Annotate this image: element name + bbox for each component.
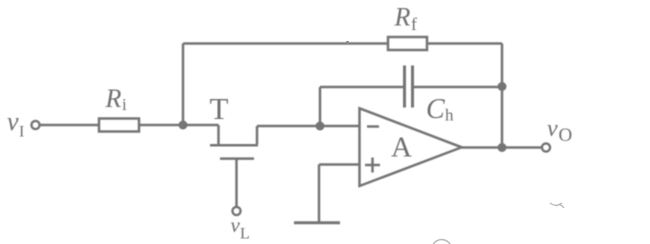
ground [294,221,340,224]
wire vI to Ri [40,124,98,127]
svg-text:i: i [122,95,127,114]
svg-text:C: C [426,94,445,125]
svg-text:h: h [445,106,454,125]
svg-text:O: O [559,125,573,146]
node D (output junction) [498,143,507,152]
resistor R2 (Rf) [388,37,427,50]
wire Ri to transistor [139,124,219,127]
svg-text:f: f [411,14,417,34]
terminal vI [32,121,40,129]
svg-text:v: v [231,213,241,237]
label Ri [105,84,128,114]
svg-text:v: v [7,107,19,136]
terminal vL [233,207,241,215]
wire noninverting input [319,163,360,166]
terminal vO [542,144,550,152]
artifact speck on top wire [346,41,349,44]
wire output [462,146,542,149]
wire transistor to inverting node [257,125,360,128]
wire Rf to right vertical [427,42,502,45]
node B (inverting input) [316,122,325,131]
artifact squiggle lower right [550,203,564,208]
capacitor C1 (Ch) plates [405,66,413,108]
wire feedback left vertical [182,44,185,126]
plus sign [365,158,380,173]
svg-text:I: I [19,124,24,141]
wire to ground [318,165,321,223]
transistor T [210,125,258,207]
wire capacitor right [414,86,502,89]
minus sign [367,125,379,128]
label vL [231,213,250,243]
node A (after Ri, feedback tap) [179,121,188,130]
label vO [547,116,572,146]
svg-text:A: A [391,132,412,164]
wire feedback right vertical [501,44,504,148]
svg-text:L: L [240,226,250,243]
label Rf [394,3,418,35]
svg-text:R: R [394,3,411,32]
label Ch [426,94,454,125]
svg-text:v: v [547,116,558,142]
resistor R1 (Ri) [99,119,139,132]
svg-text:R: R [105,84,122,113]
artifact arc at bottom edge [432,240,451,244]
svg-text:T: T [210,91,229,126]
wire node to capacitor vertical [319,87,322,126]
wire feedback top [183,42,388,45]
node C (capacitor/Rf junction) [498,82,507,91]
wire to capacitor left [320,86,403,89]
op-amp U1 (A) [360,108,462,186]
label vI [7,107,24,141]
